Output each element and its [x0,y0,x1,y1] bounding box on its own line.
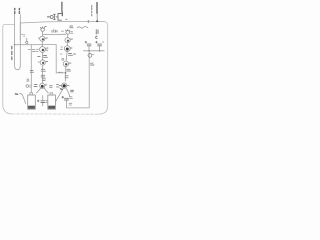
wire rail corner down [56,45,65,73]
phone jack sleeve bar [54,14,56,19]
capacitor C3 [85,41,91,51]
trimmer crown top of chain1 [40,27,45,32]
label Rx [91,63,94,65]
junction dot rail right [96,20,98,22]
bias rail mid [15,44,57,46]
switch contact dash [15,93,17,95]
switch curve bottom left [20,94,26,104]
transistor Q4 output left [40,83,47,88]
label script squiggle y27 [77,26,88,28]
label C x96 y37 [96,36,98,38]
label pair y75-77 chain1 [41,75,45,77]
earpiece drop wire [88,51,90,108]
labels left y54 chain2 [60,53,62,55]
label 12k left [28,49,30,51]
top supply rail [20,22,104,24]
junction dots on output rail [88,50,89,51]
labels left of Q8 [57,85,62,87]
label right y90 [71,90,74,92]
label near x31 lower [30,71,33,73]
label col jack [61,2,63,15]
border frame bottom [12,113,99,115]
capacitor C2 output [62,96,73,107]
wire crown2 stem [67,34,69,37]
wire crown stem [42,31,44,36]
label col text left line1 [14,9,16,14]
jack right dash [66,18,67,20]
wire line 2 upper [19,15,21,24]
label near x28 y80 [27,79,29,81]
capacitor C4 [96,41,104,51]
label right of crown2 [71,32,73,34]
label col below x97 [96,30,98,34]
earpiece MIC circle [88,54,94,58]
label dash x61 y31 [62,30,64,32]
transistor Q5 [65,38,73,43]
labels right y53-57 chain2 [69,54,76,56]
battery B1 [28,93,36,109]
label col right B [96,3,98,13]
junction rail-chain2 [65,72,67,74]
phone jack ring circle [50,16,53,19]
label pair y69-71 chain1 [41,69,45,71]
label 1k5 above link [52,30,57,33]
wire Q7 down [64,67,66,81]
label circle8 y86 [26,85,29,88]
labels y69-71 chain2 [67,69,71,71]
transistor Q1 [38,36,47,41]
border frame left [3,24,15,114]
transistor Q8 output right [62,83,69,88]
label col text left line2 [18,9,20,14]
label neq top right of crown2 [70,26,73,28]
label near battery2 top [50,86,53,88]
transistor Q3 [38,60,48,65]
node plug on rail [26,38,28,41]
label 0.1 mid [38,56,48,58]
label col mid text [11,47,13,60]
capacitor C1 between batteries [37,96,48,106]
transistor Q7 [63,61,71,66]
tick on rail x88 [87,20,89,22]
wire base link chain1-chain2 [43,33,66,35]
junction rail-line1 [14,44,15,45]
label plus left of crown [45,26,46,28]
wire Q2 down [42,52,44,60]
wire line 2 lower [19,23,21,40]
Q8 leg to battery2 [56,88,64,101]
jack mid dash [56,16,57,18]
Q8 leg right curve [66,88,70,97]
label o x62.5 y59 [62,58,64,60]
transistor Q6 [61,46,73,52]
labels left of junction [58,71,62,73]
ground return wire bottom [67,107,90,108]
phone jack tip dash [47,16,49,18]
label above Q4 [42,79,45,81]
labels y75-79 chain2 [65,76,68,78]
antenna feed line right [96,13,98,21]
output rail right [83,50,104,52]
label col right A [91,6,93,16]
transistor Q2 [36,47,48,53]
border frame right [99,22,108,115]
crown2 top of chain2 [66,29,70,34]
wire Q5-Q6 [66,43,68,46]
Q4 collector leg right [44,88,48,93]
wire vertical left pair: line 1 [15,15,21,70]
label left of Q4 [34,85,37,87]
label dots above plug [22,33,25,36]
wire battery1 drop [30,45,32,93]
wire Q1-rail [41,41,43,46]
wire Q6 down [66,52,67,62]
battery B2 [48,93,56,109]
wire Q3 down [42,65,44,83]
Q4 emitter leg left [37,88,41,93]
label above Q8 area [60,88,62,91]
phone jack body bracket [58,14,61,21]
